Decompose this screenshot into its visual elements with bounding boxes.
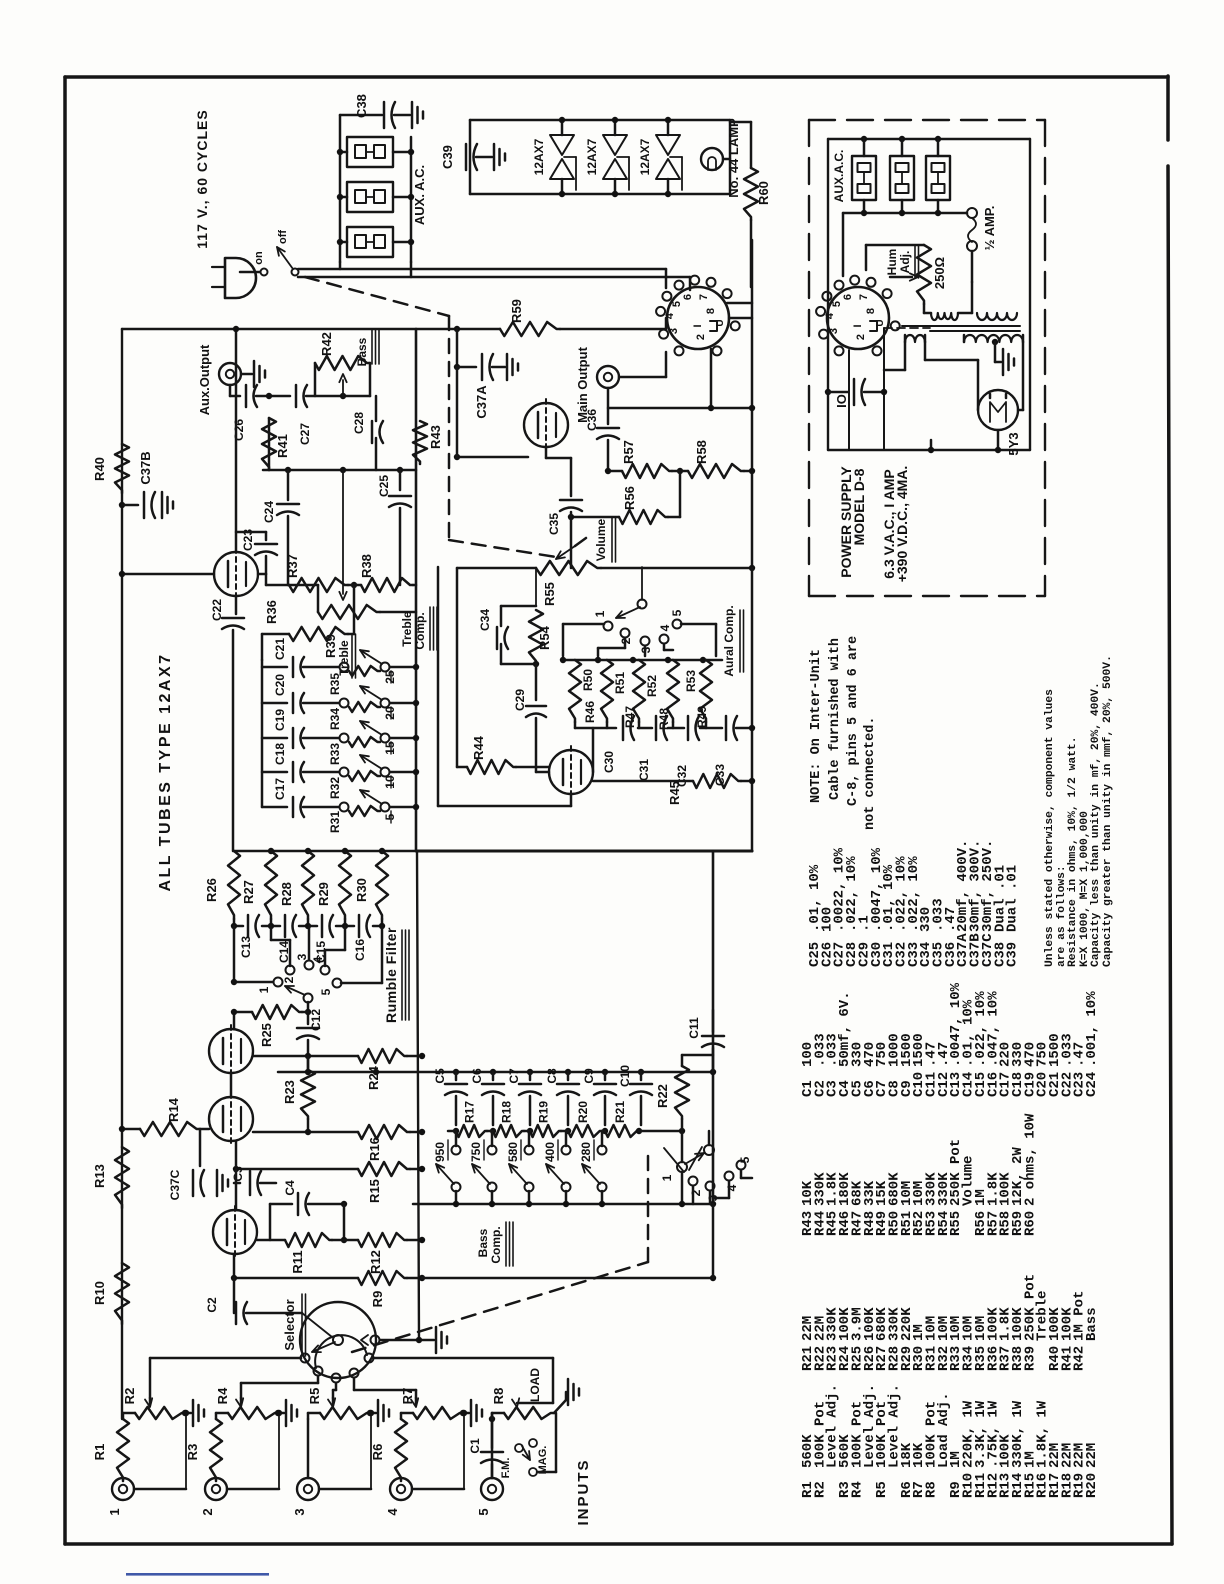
wire channel bus 5: [373, 1357, 553, 1360]
svg-text:Bass: Bass: [1084, 1307, 1100, 1341]
svg-text:Unless stated otherwise, compo: Unless stated otherwise, component value…: [1044, 689, 1056, 967]
switch row 5 cap C17 res R31: [262, 806, 287, 809]
svg-text:Selector: Selector: [282, 1299, 297, 1350]
aux output jack: [219, 363, 241, 385]
svg-text:10: 10: [383, 775, 397, 789]
switch row 15 cap C19 res R33: [262, 737, 287, 740]
capacitor C24: [287, 470, 290, 500]
left bus: [121, 329, 123, 1419]
svg-text:117 V., 60 CYCLES: 117 V., 60 CYCLES: [194, 109, 210, 248]
ps outlet bus: [843, 212, 966, 215]
svg-text:R23: R23: [282, 1080, 297, 1104]
wire socket right: [727, 302, 752, 305]
resistor R43: [413, 421, 427, 464]
wire tube plate top: [235, 329, 238, 552]
wire aural contacts: [563, 623, 604, 626]
svg-text:C35: C35: [547, 513, 561, 535]
fuse half amp: [967, 208, 977, 218]
resistor R28: [302, 851, 314, 919]
svg-text:C34: C34: [478, 609, 492, 631]
svg-text:C3: C3: [231, 1166, 245, 1182]
svg-text:R37: R37: [285, 554, 300, 578]
dashed link selector-load: [352, 1262, 648, 1352]
svg-text:5: 5: [319, 988, 333, 995]
svg-text:25: 25: [383, 670, 397, 684]
svg-text:R46: R46: [583, 701, 597, 723]
heater filament V2: [603, 135, 627, 155]
svg-text:R32: R32: [328, 777, 342, 799]
capacitor C1: [491, 1419, 494, 1448]
wire outlet feeds: [339, 262, 342, 269]
capacitor C39: [465, 144, 468, 170]
wire lamp-R60: [723, 158, 730, 161]
ground at load: [567, 1379, 570, 1405]
svg-text:R12: R12: [368, 1250, 383, 1274]
svg-text:C25: C25: [377, 475, 391, 497]
input jack 2: [205, 1478, 227, 1500]
resistor R40: [115, 444, 129, 493]
svg-text:U: U: [875, 319, 886, 326]
svg-text:3: 3: [295, 953, 309, 960]
svg-text:950: 950: [433, 1142, 447, 1162]
resistor R58: [677, 468, 683, 474]
svg-text:ALL TUBES TYPE 12AX7: ALL TUBES TYPE 12AX7: [157, 652, 174, 891]
resistor R18: [493, 1125, 524, 1137]
ps wiring: [883, 328, 885, 450]
capacitor C15: [321, 915, 324, 937]
svg-text:250Ω: 250Ω: [932, 257, 947, 289]
svg-text:15: 15: [383, 741, 397, 755]
ground at aux jack: [241, 373, 252, 376]
svg-text:Comp.: Comp.: [413, 612, 427, 649]
svg-text:R21: R21: [613, 1101, 627, 1123]
svg-text:R24: R24: [366, 1065, 381, 1090]
resistor R21: [605, 1125, 639, 1137]
svg-text:8: 8: [705, 308, 717, 314]
bus heavy y851: [416, 850, 752, 853]
svg-text:R57: R57: [621, 440, 636, 464]
bass pot R42: [314, 363, 317, 396]
resistor R44: [457, 766, 467, 769]
switch row 25 cap C21 res R35: [262, 666, 287, 669]
bus x418: [417, 851, 419, 1340]
pot R2: [135, 1407, 185, 1419]
svg-text:+390 V.D.C., 4MA.: +390 V.D.C., 4MA.: [894, 466, 910, 583]
triode V2a: [209, 1097, 253, 1141]
svg-text:R56: R56: [622, 486, 637, 510]
jack return wires: [134, 1488, 186, 1491]
svg-text:R42: R42: [1072, 1346, 1088, 1371]
svg-text:C5: C5: [433, 1068, 447, 1084]
switch row 10 cap C18 res R32: [262, 771, 287, 774]
svg-text:C22: C22: [210, 599, 224, 621]
svg-text:R26: R26: [204, 878, 219, 902]
resistor R1: [117, 1419, 129, 1481]
aural comp switch: [638, 600, 647, 609]
capacitor C33: [725, 716, 728, 740]
pot R4: [228, 1407, 278, 1419]
transformer secondary: [905, 335, 925, 342]
resistor R14: [122, 1128, 140, 1131]
svg-text:Comp.: Comp.: [489, 1226, 503, 1263]
resistor R3: [210, 1419, 222, 1481]
resistor R13: [115, 1147, 129, 1208]
svg-text:5: 5: [738, 1156, 752, 1163]
svg-text:5: 5: [831, 301, 843, 307]
resistor R36: [289, 627, 348, 641]
svg-text:R54: R54: [537, 625, 552, 650]
page frame border: [65, 75, 1168, 79]
capacitor C37B: [119, 502, 125, 508]
svg-text:R31: R31: [328, 811, 342, 833]
switch SW1 on/off: [261, 269, 268, 276]
resistor R53: [667, 660, 679, 722]
wire y1204 bus: [413, 1203, 713, 1206]
svg-text:400: 400: [543, 1142, 557, 1162]
resistor R60: [744, 168, 758, 220]
rumble caps row: [233, 919, 236, 926]
svg-text:C19: C19: [273, 709, 287, 731]
resistor R10: [115, 1263, 129, 1324]
wire AC pair: [298, 268, 666, 271]
svg-text:12AX7: 12AX7: [585, 138, 599, 175]
svg-text:R55: R55: [542, 582, 557, 606]
svg-text:4: 4: [385, 1508, 400, 1516]
ground ch: [185, 1412, 191, 1415]
resistor R19: [530, 1125, 561, 1137]
svg-text:C8: C8: [545, 1068, 559, 1084]
svg-text:R4: R4: [849, 1481, 865, 1498]
switch 400: [565, 1131, 568, 1146]
resistor R47: [700, 660, 712, 722]
wire jack-socket: [619, 376, 666, 379]
svg-text:2: 2: [200, 1508, 215, 1515]
svg-text:4: 4: [311, 956, 325, 963]
svg-text:R29: R29: [316, 882, 331, 906]
svg-text:Volume: Volume: [594, 518, 608, 561]
capacitor C13: [247, 915, 250, 937]
svg-text:20: 20: [383, 706, 397, 720]
main output jack: [597, 366, 619, 388]
svg-text:R30: R30: [354, 878, 369, 902]
resistor R52: [633, 660, 645, 722]
svg-text:C10: C10: [618, 1065, 632, 1087]
svg-text:C39: C39: [440, 145, 455, 169]
pot 250ohm: [865, 245, 868, 270]
svg-text:on: on: [253, 251, 265, 265]
svg-text:R38: R38: [359, 554, 374, 578]
svg-text:R59: R59: [509, 299, 524, 323]
volume pot R55: [536, 561, 601, 575]
svg-text:R36: R36: [264, 600, 279, 624]
resistor R20: [568, 1125, 602, 1137]
svg-text:Capacity greater than unity in: Capacity greater than unity in mmf, 20%,…: [1102, 655, 1114, 967]
triode V5 aural: [549, 750, 593, 794]
ground ch: [370, 1412, 376, 1415]
rumble selector switch: [233, 926, 236, 982]
svg-text:R39: R39: [1022, 1346, 1038, 1371]
svg-text:R58: R58: [694, 440, 709, 464]
svg-text:C39: C39: [1005, 942, 1021, 967]
svg-text:R17: R17: [463, 1101, 477, 1123]
resistor R41: [262, 418, 276, 470]
svg-text:Rumble Filter: Rumble Filter: [383, 927, 399, 1023]
rectifier 5Y3: [978, 390, 1018, 430]
svg-text:4: 4: [664, 312, 676, 319]
svg-text:R50: R50: [581, 669, 595, 691]
resistor R24: [358, 1049, 407, 1063]
main bus x713: [712, 851, 715, 1204]
svg-text:R2: R2: [812, 1481, 828, 1498]
capacitor C35: [570, 458, 573, 496]
svg-text:C29: C29: [513, 689, 527, 711]
svg-text:C-8, pins 5 and 6 are: C-8, pins 5 and 6 are: [846, 636, 861, 806]
ground at C38: [411, 102, 414, 128]
svg-text:R52: R52: [645, 675, 659, 697]
wire channel bus 4: [353, 1378, 356, 1390]
svg-text:R5: R5: [307, 1388, 322, 1405]
svg-text:R16: R16: [367, 1137, 382, 1161]
ground at C39: [493, 144, 496, 170]
capacitor C26: [245, 385, 248, 407]
resistor R51: [601, 660, 613, 722]
svg-text:7: 7: [858, 294, 870, 300]
capacitor C2: [233, 1278, 236, 1313]
svg-text:R2: R2: [122, 1388, 137, 1405]
resistor R56: [619, 510, 668, 524]
capacitor C3: [249, 1171, 252, 1195]
svg-text:IO: IO: [834, 394, 849, 408]
svg-text:C18: C18: [273, 743, 287, 765]
treble pot R39: [318, 605, 380, 619]
aural comp box: [437, 567, 440, 806]
capacitor C11: [702, 1035, 724, 1038]
capacitor C16: [358, 915, 361, 937]
ps outlets: [852, 156, 876, 200]
ground at C37A: [506, 354, 509, 380]
wire selector bus: [422, 1277, 713, 1280]
svg-text:C4: C4: [283, 1180, 297, 1196]
svg-text:INPUTS: INPUTS: [575, 1458, 592, 1525]
svg-text:Cable furnished with: Cable furnished with: [828, 638, 843, 800]
svg-text:not connected.: not connected.: [863, 717, 878, 830]
svg-text:R19: R19: [537, 1101, 551, 1123]
svg-text:3: 3: [668, 328, 680, 334]
svg-text:C27: C27: [298, 423, 312, 445]
svg-text:8: 8: [865, 308, 877, 314]
ground ch: [278, 1412, 284, 1415]
svg-text:Bass: Bass: [355, 337, 369, 366]
aural caps row: [574, 722, 577, 728]
triode V4b: [524, 403, 568, 447]
ground at C37C: [216, 1170, 219, 1196]
load wiring: [491, 1413, 494, 1419]
svg-text:C16: C16: [353, 939, 367, 961]
heater tap: [670, 156, 682, 158]
svg-text:12AX7: 12AX7: [638, 138, 652, 175]
svg-text:R25: R25: [259, 1023, 274, 1047]
input jack 1: [112, 1478, 134, 1500]
capacitor C14: [284, 915, 287, 937]
resistor R38: [351, 582, 357, 588]
capacitor C12: [307, 1002, 310, 1024]
wire heater bus box: [470, 119, 730, 122]
selector switch: [300, 1302, 376, 1378]
wire row y1169: [236, 1168, 358, 1171]
svg-text:C26: C26: [232, 419, 246, 441]
svg-text:280: 280: [579, 1142, 593, 1162]
svg-text:R8: R8: [924, 1481, 940, 1498]
power plug P1: [225, 258, 256, 298]
resistor R25: [305, 1009, 311, 1015]
capacitor C9: [604, 1072, 607, 1080]
svg-text:R6: R6: [370, 1444, 385, 1461]
svg-text:6: 6: [682, 294, 694, 300]
resistor R23: [307, 1056, 310, 1070]
switch 950: [455, 1131, 458, 1146]
ac outlet: [347, 137, 393, 167]
resistor R45: [593, 780, 693, 783]
svg-text:Dual .01: Dual .01: [1005, 865, 1021, 932]
triode V4a: [214, 552, 258, 596]
svg-text:AUX. A.C.: AUX. A.C.: [412, 165, 427, 225]
svg-text:C13: C13: [239, 936, 253, 958]
svg-text:4: 4: [824, 312, 836, 319]
svg-text:5: 5: [476, 1508, 491, 1515]
heater tap: [617, 156, 629, 158]
svg-text:R10: R10: [92, 1281, 107, 1305]
capacitor C27: [295, 385, 298, 407]
svg-text:Capacity less than unity in mf: Capacity less than unity in mf, 20%, 400…: [1090, 682, 1102, 967]
svg-text:750: 750: [469, 1142, 483, 1162]
resistor R17: [456, 1125, 487, 1137]
svg-text:R18: R18: [500, 1101, 514, 1123]
svg-text:3: 3: [292, 1508, 307, 1515]
svg-text:LOAD: LOAD: [528, 1368, 542, 1402]
heater tap: [564, 156, 576, 158]
svg-text:R4: R4: [215, 1387, 230, 1404]
pot R8: [504, 1407, 554, 1419]
heater filament V1: [550, 135, 574, 155]
svg-text:R60: R60: [1022, 1211, 1038, 1236]
pilot lamp No.44: [701, 148, 723, 170]
svg-text:5: 5: [671, 301, 683, 307]
svg-text:C38: C38: [354, 94, 369, 118]
svg-text:C37B: C37B: [138, 451, 153, 484]
svg-text:C7: C7: [507, 1068, 521, 1084]
svg-text:MODEL D-8: MODEL D-8: [851, 468, 867, 545]
capacitor C23: [258, 573, 266, 576]
svg-text:C24: C24: [1084, 1072, 1100, 1097]
svg-text:R1: R1: [92, 1444, 107, 1461]
svg-text:.001, 10%: .001, 10%: [1084, 991, 1100, 1067]
svg-text:U: U: [715, 319, 726, 326]
svg-text:5Y3: 5Y3: [1006, 432, 1021, 455]
capacitor C25: [399, 470, 402, 490]
tone box top wire: [122, 328, 416, 331]
svg-text:Bass: Bass: [476, 1228, 490, 1257]
treble bank rows: [261, 660, 264, 807]
svg-text:C30: C30: [602, 751, 616, 773]
svg-text:R42: R42: [319, 332, 334, 356]
svg-text:R33: R33: [328, 743, 342, 765]
wire channel bus 2: [317, 1376, 320, 1383]
resistor R9: [358, 1271, 407, 1285]
svg-text:Hum: Hum: [885, 249, 899, 276]
octal socket J1: [667, 287, 729, 349]
svg-text:5: 5: [670, 609, 684, 616]
svg-text:off: off: [277, 230, 289, 244]
svg-text:AUX.A.C.: AUX.A.C.: [832, 150, 846, 203]
svg-text:C20: C20: [273, 674, 287, 696]
switch 280: [601, 1131, 604, 1146]
svg-text:R20: R20: [576, 1101, 590, 1123]
svg-text:2: 2: [695, 334, 707, 340]
capacitor C29: [535, 664, 538, 700]
heater filament V3: [656, 135, 680, 155]
svg-text:C24: C24: [262, 501, 276, 523]
switch row 20 cap C20 res R34: [262, 702, 287, 705]
capacitor C22: [235, 596, 238, 614]
svg-text:R8: R8: [491, 1388, 506, 1405]
wire y1072: [278, 1071, 713, 1074]
transformer core: [902, 325, 1020, 327]
svg-text:12AX7: 12AX7: [532, 138, 546, 175]
svg-text:R27: R27: [241, 880, 256, 904]
svg-text:NOTE: On Inter-Unit: NOTE: On Inter-Unit: [809, 649, 824, 803]
wire R55 left: [457, 567, 536, 570]
svg-text:2 ohms, 10W: 2 ohms, 10W: [1022, 1113, 1038, 1206]
svg-text:Adj.: Adj.: [898, 251, 912, 274]
svg-text:5: 5: [383, 813, 397, 820]
svg-text:C37C: C37C: [168, 1169, 182, 1200]
svg-text:R34: R34: [328, 708, 342, 730]
octal socket ps: [827, 287, 889, 349]
svg-text:R15: R15: [367, 1179, 382, 1203]
input jack 3: [297, 1478, 319, 1500]
svg-text:R44: R44: [471, 735, 486, 760]
capacitor C4: [270, 1203, 292, 1206]
capacitor C37C: [199, 1129, 202, 1166]
resistor R22: [675, 1066, 689, 1119]
pot R5: [320, 1407, 370, 1419]
ps solid box: [828, 138, 1030, 140]
svg-text:Aural Comp.: Aural Comp.: [722, 605, 736, 676]
capacitor C34: [535, 568, 537, 606]
wire row y1132: [253, 1131, 358, 1134]
svg-text:C11: C11: [687, 1017, 701, 1039]
svg-text:580: 580: [506, 1142, 520, 1162]
svg-text:R5: R5: [874, 1481, 890, 1498]
resistor R37: [266, 584, 289, 587]
resistor R12: [358, 1233, 407, 1247]
pot wiper stubs: [149, 1398, 152, 1404]
input jack 5: [481, 1478, 503, 1500]
wire mid bass: [263, 469, 416, 472]
resistor R11: [285, 1233, 332, 1247]
svg-text:R22: R22: [655, 1084, 670, 1108]
svg-text:C28: C28: [352, 412, 366, 434]
resistor R26: [228, 851, 240, 919]
svg-text:R13: R13: [92, 1164, 107, 1188]
svg-text:R11: R11: [290, 1250, 305, 1273]
wire aux jack down: [229, 385, 232, 396]
svg-text:3: 3: [828, 328, 840, 334]
load selector switch: [639, 1130, 682, 1133]
svg-text:R51: R51: [613, 672, 627, 694]
svg-text:4: 4: [725, 1184, 739, 1191]
svg-text:R20: R20: [1084, 1473, 1100, 1498]
